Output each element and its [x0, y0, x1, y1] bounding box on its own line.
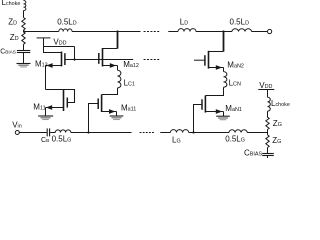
wire	[267, 148, 269, 154]
inductor Lchoke (top-left)	[24, 1, 26, 11]
wire (MaN1 gate)	[194, 105, 203, 133]
svg-text:CB: CB	[41, 137, 49, 144]
transistor MaN1	[201, 99, 203, 110]
inductor LG	[170, 130, 188, 133]
transistor Ma11	[97, 99, 99, 110]
wire	[267, 111, 269, 117]
ground (MaN1)	[216, 115, 230, 117]
wire	[102, 88, 118, 95]
wire	[267, 90, 269, 98]
wire	[116, 112, 118, 116]
wire	[72, 31, 141, 33]
wire	[267, 156, 269, 159]
wire	[23, 11, 25, 18]
resistor ZD (lower)	[22, 32, 25, 45]
node (Ma12 drain)	[116, 30, 118, 32]
wire	[45, 108, 47, 116]
ground (left CBIAS)	[17, 63, 31, 65]
wire	[19, 132, 46, 134]
transistor M13	[61, 52, 63, 67]
inductor LCN	[224, 72, 227, 88]
wire	[50, 132, 55, 134]
resistor ZG (lower)	[266, 135, 269, 148]
ground (Ma11)	[110, 115, 124, 117]
wire (Ma11 gate)	[89, 104, 99, 133]
wire	[117, 66, 119, 71]
wire	[160, 132, 170, 134]
wire	[223, 112, 225, 117]
wire	[267, 130, 269, 135]
node (gate bus junction)	[73, 58, 75, 60]
node (gate line tap 1)	[87, 131, 89, 133]
wire	[223, 68, 225, 72]
VDD supply (right)	[258, 89, 274, 91]
transistor MaN2	[204, 55, 206, 65]
node (MaN2 drain)	[222, 30, 224, 32]
svg-text:Lchoke: Lchoke	[2, 0, 21, 7]
wire	[205, 87, 223, 95]
node (ZD tap to drain line)	[23, 30, 25, 32]
inductor Lchoke (right)	[268, 97, 271, 111]
VDD supply (left)	[37, 37, 51, 39]
inductor 0.5LG (left)	[55, 130, 70, 133]
resistor ZD (upper)	[22, 18, 25, 31]
inductor LD	[178, 29, 196, 32]
wire	[23, 30, 25, 32]
inductor LC1	[118, 70, 121, 88]
wire	[252, 31, 268, 33]
inductor 0.5LD (left)	[59, 29, 72, 32]
wire	[44, 47, 62, 53]
inductor 0.5LG (right)	[229, 130, 247, 133]
wire (drain line right)	[168, 31, 178, 33]
wire	[247, 132, 267, 134]
wire (VDD rail)	[44, 46, 75, 48]
capacitor CBIAS (left)	[17, 50, 30, 52]
wire (gate line dashed)	[140, 132, 155, 134]
wire	[43, 38, 45, 47]
svg-text:CBIAS: CBIAS	[0, 49, 16, 56]
output port	[268, 29, 272, 33]
wire	[189, 132, 229, 134]
wire	[71, 132, 132, 134]
wire	[196, 31, 232, 33]
capacitor CB	[46, 128, 48, 136]
wire (MaN2 gate lead)	[194, 59, 205, 61]
node (gate line tap N)	[192, 131, 194, 133]
input port Vin	[15, 131, 19, 135]
wire (drain line left)	[24, 31, 59, 33]
wire (cascode gate bus)	[65, 59, 133, 61]
transistor Ma12	[98, 53, 100, 64]
transistor M11 (diode-connected)	[46, 90, 75, 103]
ground (M11)	[38, 115, 53, 117]
capacitor CBIAS (right)	[262, 153, 274, 155]
inductor 0.5LD (right)	[232, 29, 252, 32]
wire (drain bus dashed)	[144, 31, 160, 33]
wire	[23, 53, 25, 64]
resistor ZG (upper)	[266, 117, 269, 129]
wire (gate bus dashed)	[144, 59, 160, 61]
wire (M13 source riser)	[45, 66, 47, 90]
wire	[23, 44, 25, 50]
wire (VDD drop to cascode gate bus)	[74, 47, 76, 60]
